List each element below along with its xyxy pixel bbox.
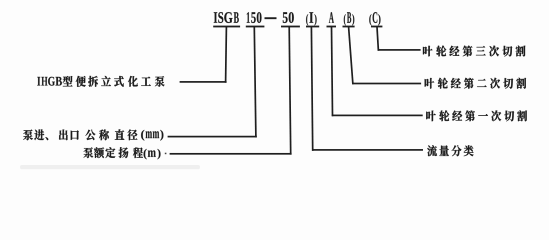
wire: vertical drop from "(I)" tick <box>311 27 314 151</box>
label text "泵额定扬程" (pump rated head) <box>83 147 142 158</box>
model code token "(C)" <box>369 12 380 25</box>
wire: horizontal to label "叶轮经第二次切割" <box>352 83 421 85</box>
label text "流量分类" (flow classification) <box>427 145 473 156</box>
label text "叶轮经第二次切割" (impeller second cut) <box>425 78 526 89</box>
wire: horizontal to label "叶轮经第三次切割" <box>378 49 421 51</box>
wire: horizontal to label "流量分类" <box>312 149 423 151</box>
label text "IHGB" (pump type prefix) <box>37 77 62 86</box>
underline tick below "(B)" <box>343 26 355 28</box>
wire: horizontal to label "泵进、出口公称直径(mm)" <box>168 136 257 138</box>
wire: vertical drop from "A" tick <box>331 27 334 116</box>
model code token "150" <box>247 12 262 23</box>
label text "(m)" unit <box>144 149 161 159</box>
wire: vertical drop from "50" tick <box>288 27 291 155</box>
underline tick below "150" <box>246 26 265 28</box>
wire: horizontal to label "泵额定扬程(m)" <box>170 153 292 155</box>
underline tick below "ISGB" <box>213 26 240 28</box>
underline tick below "50" <box>281 26 300 28</box>
model code token "50" <box>283 12 294 23</box>
label text "叶轮经第三次切割" (impeller third cut) <box>423 46 525 57</box>
underline tick below "A" <box>327 26 337 28</box>
wire: vertical drop from "(C)" tick <box>376 27 379 51</box>
underline tick below "(C)" <box>371 26 382 28</box>
underline tick below "(I)" <box>306 26 319 28</box>
label text "型便拆立式化工泵" (vertical chemical pump type) <box>63 76 165 87</box>
wire: vertical drop from "(B)" tick <box>348 27 354 84</box>
wire: vertical drop from "ISGB" tick <box>225 27 228 83</box>
wire: vertical drop from "150" tick <box>253 27 256 138</box>
model code token "ISGB" <box>214 12 239 23</box>
faint scan smudge below "泵额定扬程(m)" <box>20 165 200 169</box>
model code token "A" <box>329 12 334 23</box>
label text "(mm)" unit <box>141 130 163 141</box>
label text "叶轮经第一次切割" (impeller first cut) <box>426 110 527 121</box>
label text "泵进、出口公称直径" (inlet/outlet nominal diameter) <box>23 129 137 140</box>
model code token "(B)" <box>344 12 355 25</box>
model code token "(I)" <box>306 12 317 25</box>
ink fleck at start of rated-head wire <box>165 153 167 155</box>
wire: horizontal to label "IHGB型便拆立式化工泵" <box>180 81 227 83</box>
dash between "150" and "50" <box>265 17 277 19</box>
wire: horizontal to label "叶轮经第一次切割" <box>332 115 423 117</box>
